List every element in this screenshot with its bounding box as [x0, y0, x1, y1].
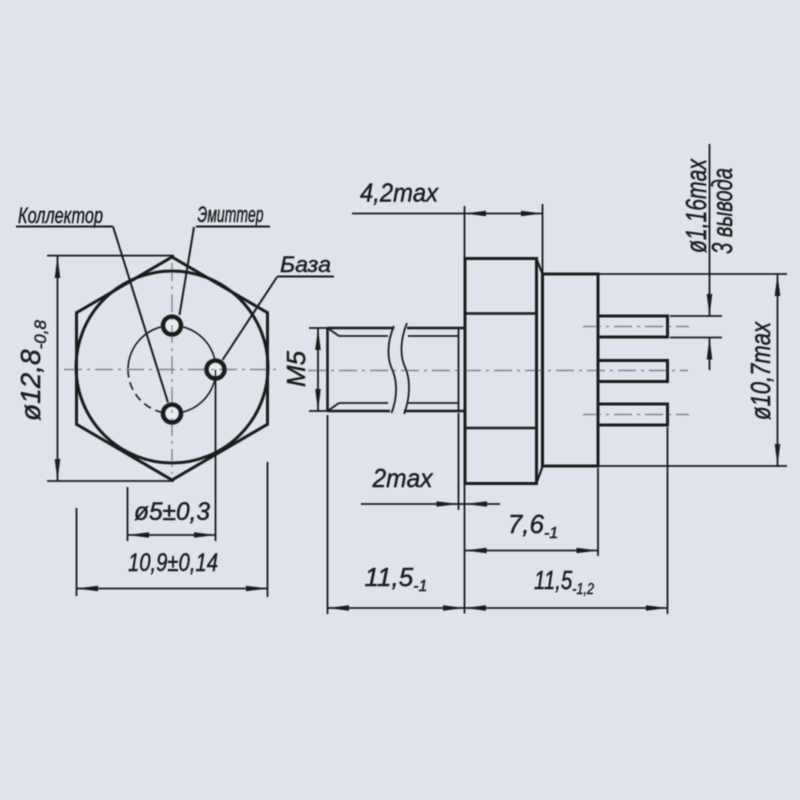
svg-text:2max: 2max — [372, 463, 434, 493]
svg-text:10,9±0,14: 10,9±0,14 — [128, 549, 218, 577]
svg-text:М5: М5 — [281, 350, 311, 387]
svg-text:ø10,7max: ø10,7max — [745, 321, 776, 420]
svg-text:ø5±0,3: ø5±0,3 — [134, 498, 210, 526]
svg-text:Эмиттер: Эмиттер — [198, 202, 264, 227]
svg-text:База: База — [280, 252, 331, 277]
svg-text:3 вывода: 3 вывода — [707, 168, 739, 254]
svg-text:Коллектор: Коллектор — [18, 203, 103, 228]
svg-text:4,2max: 4,2max — [360, 178, 439, 208]
